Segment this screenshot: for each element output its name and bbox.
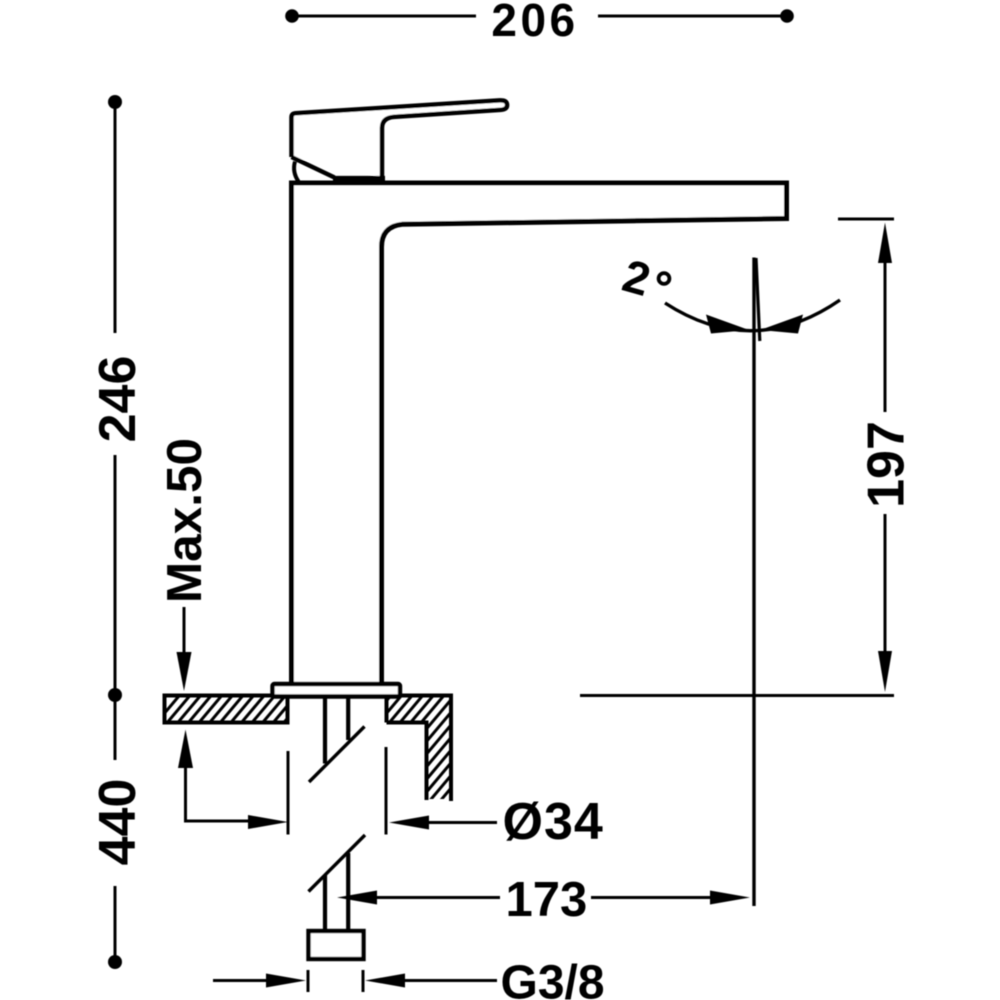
- svg-text:246: 246: [89, 356, 147, 443]
- svg-text:Ø34: Ø34: [503, 793, 604, 851]
- svg-text:440: 440: [89, 779, 147, 866]
- svg-text:G3/8: G3/8: [501, 957, 605, 1000]
- svg-text:197: 197: [858, 421, 916, 508]
- svg-text:206: 206: [491, 0, 578, 46]
- svg-text:Max.50: Max.50: [157, 438, 212, 603]
- svg-text:173: 173: [506, 873, 588, 927]
